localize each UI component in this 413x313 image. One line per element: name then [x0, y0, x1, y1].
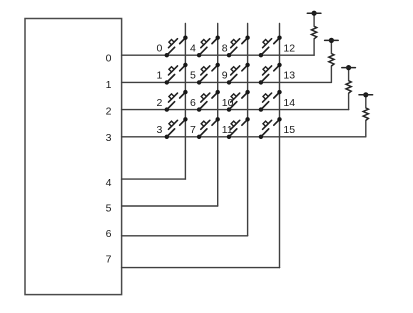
wire power to resistor R1 [313, 15, 315, 26]
switch S15 (pushbutton) [259, 117, 282, 139]
wire resistor R4 to row 3 [365, 120, 367, 136]
wire pin 7 [122, 267, 280, 269]
switch S4 (pushbutton) [197, 36, 220, 58]
svg-text:6: 6 [106, 228, 112, 240]
resistor R3 (pull-up) [346, 81, 351, 94]
svg-text:3: 3 [106, 132, 112, 144]
switch S10 (pushbutton) [227, 90, 250, 112]
switch S7 (pushbutton) [197, 117, 220, 139]
wire row 1 (pin 1 net) [122, 81, 332, 83]
switch S0 (pushbutton) [165, 36, 188, 58]
power symbol (supply rail) for R4 [359, 92, 373, 97]
IC U1 (controller port) [25, 19, 122, 295]
wire power to resistor R2 [330, 43, 332, 54]
switch S2 (pushbutton) [165, 90, 188, 112]
wire power to resistor R4 [365, 97, 367, 108]
switch S14 (pushbutton) [259, 90, 282, 112]
wire row 0 (pin 0 net) [122, 54, 315, 56]
wire row 3 (pin 3 net) [122, 136, 366, 138]
svg-text:10: 10 [222, 97, 234, 109]
wire column 4 (pin 7 net) [279, 24, 281, 268]
switch S3 (pushbutton) [165, 117, 188, 139]
svg-text:7: 7 [190, 124, 196, 136]
svg-text:7: 7 [106, 253, 112, 265]
wire resistor R2 to row 1 [330, 66, 332, 82]
switch S6 (pushbutton) [197, 90, 220, 112]
wire resistor R3 to row 2 [348, 93, 350, 109]
svg-text:5: 5 [190, 70, 196, 82]
switch S11 (pushbutton) [227, 117, 250, 139]
power symbol (supply rail) for R3 [342, 65, 356, 70]
resistor R2 (pull-up) [329, 54, 334, 67]
wire pin 6 [122, 235, 248, 237]
svg-text:5: 5 [106, 202, 112, 214]
svg-text:0: 0 [106, 53, 112, 65]
svg-text:1: 1 [157, 70, 163, 82]
svg-text:1: 1 [106, 79, 112, 91]
switch S13 (pushbutton) [259, 63, 282, 85]
svg-text:2: 2 [106, 106, 112, 118]
svg-text:2: 2 [157, 97, 163, 109]
resistor R1 (pull-up) [312, 26, 317, 39]
wire pin 5 [122, 205, 218, 207]
svg-text:3: 3 [157, 124, 163, 136]
switch S9 (pushbutton) [227, 63, 250, 85]
switch S12 (pushbutton) [259, 36, 282, 58]
wire column 2 (pin 5 net) [217, 24, 219, 207]
power symbol (supply rail) for R1 [307, 11, 321, 16]
svg-text:11: 11 [222, 124, 233, 136]
svg-text:6: 6 [190, 97, 196, 109]
power symbol (supply rail) for R2 [325, 38, 339, 43]
wire column 1 (pin 4 net) [184, 24, 186, 180]
switch S8 (pushbutton) [227, 36, 250, 58]
wire pin 4 [122, 178, 186, 180]
wire power to resistor R3 [348, 70, 350, 81]
svg-text:8: 8 [222, 42, 228, 54]
svg-text:4: 4 [190, 42, 196, 54]
svg-text:15: 15 [283, 124, 295, 136]
svg-text:0: 0 [157, 42, 163, 54]
svg-text:9: 9 [222, 70, 228, 82]
svg-text:14: 14 [283, 97, 295, 109]
switch S1 (pushbutton) [165, 63, 188, 85]
resistor R4 (pull-up) [363, 108, 368, 121]
svg-text:12: 12 [283, 42, 295, 54]
wire row 2 (pin 2 net) [122, 109, 349, 111]
switch S5 (pushbutton) [197, 63, 220, 85]
svg-text:13: 13 [283, 70, 295, 82]
wire resistor R1 to row 0 [313, 39, 315, 55]
svg-text:4: 4 [106, 177, 112, 189]
wire column 3 (pin 6 net) [247, 24, 249, 236]
